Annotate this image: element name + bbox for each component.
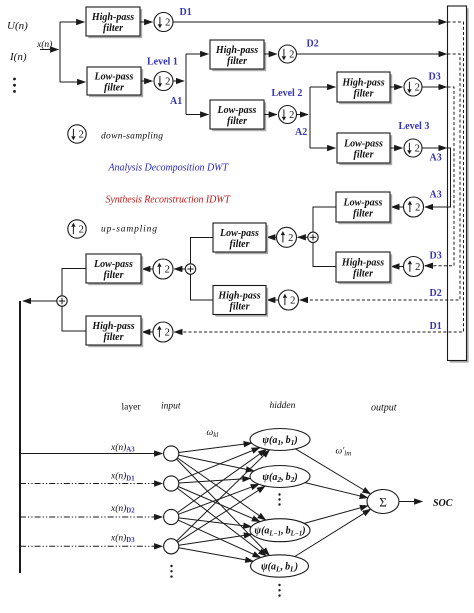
svg-text:High-pass: High-pass xyxy=(91,321,134,332)
svg-text:Low-pass: Low-pass xyxy=(217,105,257,116)
svg-text:down-sampling: down-sampling xyxy=(101,132,163,142)
high-pass filter HP2 (analysis level 2) xyxy=(210,40,266,71)
NN hidden ellipsis dots (middle) xyxy=(278,493,280,505)
svg-text:filter: filter xyxy=(353,209,373,220)
wire LPs3 to adder xyxy=(313,207,336,232)
svg-text:filter: filter xyxy=(104,83,124,94)
svg-text:A2: A2 xyxy=(295,127,307,138)
wire NN input 3 to hidden 2 xyxy=(178,484,259,514)
svg-text:D3: D3 xyxy=(429,72,441,83)
wire up-sampler to LPs1 xyxy=(142,268,153,270)
up-sampler circle level 2 input xyxy=(277,227,297,247)
wire NN input 4 to hidden 4 xyxy=(179,548,254,562)
low-pass filter LP2 (analysis level 2) xyxy=(210,100,266,131)
wire HPs1 to adder xyxy=(62,306,86,331)
wire output feed-down vertical xyxy=(19,301,21,573)
svg-text:2: 2 xyxy=(415,83,420,94)
wire HP3 to down-sampler xyxy=(390,86,402,88)
svg-text:2: 2 xyxy=(289,110,294,121)
svg-text:U(n): U(n) xyxy=(7,20,28,32)
wire A3 bus feed-back (solid) xyxy=(425,148,451,207)
wire NN input 1 to hidden 2 xyxy=(179,455,254,471)
wire up-sampler to LPs3 xyxy=(391,206,403,208)
wire reconstructed output arrow xyxy=(23,300,57,302)
wire up-sampler to HPs3 xyxy=(391,266,403,268)
low-pass filter LP1 (analysis level 1) xyxy=(87,67,143,97)
svg-text:D1: D1 xyxy=(180,7,192,18)
high-pass filter HP1 (analysis level 1) xyxy=(86,7,142,38)
low-pass filter LPs1 (synthesis level 1) xyxy=(86,254,143,285)
wire to low-pass L3 xyxy=(310,147,335,149)
wire NN hidden 3 to output sum xyxy=(304,506,368,524)
svg-text:filter: filter xyxy=(230,239,250,250)
svg-text:output: output xyxy=(371,403,397,414)
wire HP1 to down-sampler xyxy=(140,21,152,23)
down-sampler circle D3 xyxy=(404,78,422,96)
wire adder2 to up-sampler xyxy=(174,268,185,270)
wire NN input 4 to hidden 2 xyxy=(178,486,266,542)
wire NN input 1 to hidden 1 xyxy=(179,443,252,452)
svg-text:2: 2 xyxy=(415,262,420,273)
svg-text:A1: A1 xyxy=(170,96,182,107)
wire NN input row D2 xyxy=(20,516,162,518)
wire LPs1 to adder xyxy=(62,269,86,296)
wire NN input 1 to hidden 3 xyxy=(177,458,265,520)
svg-text:Low-pass: Low-pass xyxy=(343,198,383,209)
output sum node Sigma xyxy=(367,490,399,514)
svg-text:filter: filter xyxy=(104,270,124,281)
NN input ellipsis dots xyxy=(170,565,172,578)
wire up-sampler to HPs2 xyxy=(267,299,278,301)
svg-text:filter: filter xyxy=(227,116,247,127)
high-pass filter HPs2 (synthesis level 2) xyxy=(213,286,268,317)
svg-text:2: 2 xyxy=(290,296,295,307)
wire NN input row A3 xyxy=(20,453,162,455)
svg-text:Low-pass: Low-pass xyxy=(94,72,134,83)
wire to high-pass L3 xyxy=(310,86,335,88)
wire HP2 to down-sampler xyxy=(264,53,277,55)
legend up-sampler circle xyxy=(68,220,86,238)
svg-text:2: 2 xyxy=(165,77,170,88)
up-sampler circle A3 synthesis xyxy=(404,197,424,217)
wire NN input 1 to hidden 4 xyxy=(177,459,270,556)
svg-text:SOC: SOC xyxy=(433,498,453,509)
svg-text:Level 2: Level 2 xyxy=(272,88,303,99)
svg-text:2: 2 xyxy=(79,130,84,141)
wire NN input 3 to hidden 1 xyxy=(177,449,266,512)
wire level-1 splitter vertical xyxy=(59,22,61,82)
svg-text:D3: D3 xyxy=(430,251,442,262)
wire NN input 2 to hidden 3 xyxy=(178,487,260,522)
wire D1 to bus xyxy=(173,21,447,23)
wire A1 to level-2 junction xyxy=(173,80,184,82)
svg-text:D2: D2 xyxy=(307,39,319,50)
svg-text:2: 2 xyxy=(415,144,420,155)
svg-text:Low-pass: Low-pass xyxy=(93,259,133,270)
input ellipsis dots xyxy=(13,78,16,93)
svg-text:hidden: hidden xyxy=(270,401,296,411)
wire LP1 to down-sampler xyxy=(141,80,152,82)
svg-text:filter: filter xyxy=(227,56,247,67)
svg-text:Level 3: Level 3 xyxy=(399,121,430,132)
svg-text:High-pass: High-pass xyxy=(341,78,384,89)
high-pass filter HPs1 (synthesis level 1) xyxy=(86,316,143,347)
wire adder3 to up-sampler xyxy=(298,236,308,238)
svg-text:2: 2 xyxy=(415,203,420,214)
low-pass filter LPs3 (synthesis level 3) xyxy=(336,192,392,224)
adder level 1 (output) xyxy=(57,296,67,306)
adder level 2 xyxy=(185,264,195,274)
svg-text:Σ: Σ xyxy=(379,495,387,510)
NN input node circle 1 xyxy=(164,446,179,461)
wire D3 bus feed-back (dashed) xyxy=(425,87,454,266)
svg-text:filter: filter xyxy=(104,332,124,343)
svg-text:2: 2 xyxy=(79,225,84,236)
wire up-sampler to LPs2 xyxy=(267,236,276,238)
low-pass filter LP3 (analysis level 3) xyxy=(337,133,392,165)
hidden neuron psi(aL,bL) xyxy=(251,555,309,577)
wire NN input 2 to hidden 4 xyxy=(177,488,266,556)
svg-text:2: 2 xyxy=(165,265,170,276)
wire HPs2 to adder xyxy=(191,274,214,300)
svg-text:High-pass: High-pass xyxy=(215,45,258,56)
svg-text:2: 2 xyxy=(165,328,170,339)
wire up-sampler to HPs1 xyxy=(142,331,153,333)
down-sampler circle D1 xyxy=(154,13,173,32)
coefficient bus rectangle xyxy=(448,6,469,363)
wire NN input 4 to hidden 3 xyxy=(179,534,252,545)
svg-text:2: 2 xyxy=(288,233,293,244)
hidden neuron psi(a1,b1) xyxy=(250,429,310,451)
svg-text:D1: D1 xyxy=(430,321,442,332)
svg-text:A3: A3 xyxy=(430,190,442,201)
svg-text:filter: filter xyxy=(353,269,373,280)
svg-text:I(n): I(n) xyxy=(9,51,27,63)
wire NN hidden 2 to output sum xyxy=(305,483,368,498)
down-sampler circle A3 xyxy=(404,139,422,157)
wire x(n) input arrow xyxy=(40,49,58,51)
wire to high-pass L1 xyxy=(60,21,84,23)
down-sampler circle A2 xyxy=(279,106,297,124)
NN input node circle 2 xyxy=(164,476,179,491)
wire HPs3 to adder xyxy=(313,243,336,267)
svg-text:filter: filter xyxy=(103,23,123,34)
wire LPs2 to adder xyxy=(191,238,214,264)
NN hidden ellipsis dots (bottom) xyxy=(278,584,280,597)
svg-text:input: input xyxy=(161,402,181,412)
up-sampler circle level 1 input xyxy=(153,259,173,279)
hidden neuron psi(a2,b2) xyxy=(250,466,310,488)
wire A3 to bus xyxy=(422,147,447,149)
svg-text:x(n): x(n) xyxy=(36,39,52,50)
up-sampler circle D2 synthesis xyxy=(279,290,299,310)
wire NN input 3 to hidden 3 xyxy=(179,518,252,527)
hidden neuron psi(aL-1,bL-1) xyxy=(250,519,310,542)
svg-text:Low-pass: Low-pass xyxy=(343,139,383,150)
wire to high-pass L2 xyxy=(186,53,208,55)
wire NN input 3 to hidden 4 xyxy=(178,520,261,557)
svg-text:up-sampling: up-sampling xyxy=(101,225,157,235)
down-sampler circle A1 xyxy=(154,72,173,91)
wire NN input row D1 xyxy=(20,483,162,485)
wire NN input 2 to hidden 1 xyxy=(178,448,260,481)
adder level 3 xyxy=(308,232,318,242)
high-pass filter HPs3 (synthesis level 3) xyxy=(336,252,392,284)
svg-text:Synthesis Reconstruction IDWT: Synthesis Reconstruction IDWT xyxy=(106,195,232,206)
NN input node circle 3 xyxy=(164,509,179,524)
svg-text:High-pass: High-pass xyxy=(217,291,260,302)
wire A2 to level-3 junction xyxy=(297,114,309,116)
NN input node circle 4 xyxy=(164,539,179,554)
svg-text:High-pass: High-pass xyxy=(91,12,134,23)
svg-text:filter: filter xyxy=(354,150,374,161)
svg-text:filter: filter xyxy=(354,89,374,100)
svg-text:2: 2 xyxy=(289,50,294,61)
wire NN hidden 1 to output sum xyxy=(296,449,371,494)
wire LP2 to down-sampler xyxy=(264,114,277,116)
svg-text:2: 2 xyxy=(165,18,170,29)
svg-text:A3: A3 xyxy=(430,153,442,164)
svg-text:D2: D2 xyxy=(430,288,442,299)
down-sampler circle D2 xyxy=(279,45,297,63)
wire level-3 splitter vertical xyxy=(309,87,311,148)
wire D3 to bus xyxy=(422,86,447,88)
wire to low-pass L1 xyxy=(60,81,85,83)
wire to low-pass L2 xyxy=(186,114,208,116)
wire LP3 to down-sampler xyxy=(390,147,402,149)
legend down-sampler circle xyxy=(68,125,86,143)
svg-text:Analysis Decomposition DWT: Analysis Decomposition DWT xyxy=(108,163,230,174)
wire NN input 2 to hidden 2 xyxy=(179,478,251,483)
wire D2 bus feed-back (dashed) xyxy=(300,54,460,300)
up-sampler circle D1 synthesis xyxy=(153,322,173,342)
wire Sigma to SOC xyxy=(399,501,422,503)
up-sampler circle D3 synthesis xyxy=(404,257,424,277)
svg-text:High-pass: High-pass xyxy=(341,258,384,269)
svg-text:layer: layer xyxy=(122,403,142,413)
high-pass filter HP3 (analysis level 3) xyxy=(337,72,392,104)
wire level-2 splitter vertical xyxy=(185,54,187,115)
wire NN hidden 4 to output sum xyxy=(295,509,371,556)
wire NN input 4 to hidden 1 xyxy=(177,450,270,541)
wire D2 to bus xyxy=(297,53,447,55)
svg-text:filter: filter xyxy=(230,302,250,313)
wire NN input row D3 xyxy=(20,545,162,547)
wire D1 bus feed-back (dashed) xyxy=(174,22,463,332)
svg-text:Level 1: Level 1 xyxy=(147,57,178,68)
low-pass filter LPs2 (synthesis level 2) xyxy=(213,223,268,254)
svg-text:Low-pass: Low-pass xyxy=(219,228,259,239)
